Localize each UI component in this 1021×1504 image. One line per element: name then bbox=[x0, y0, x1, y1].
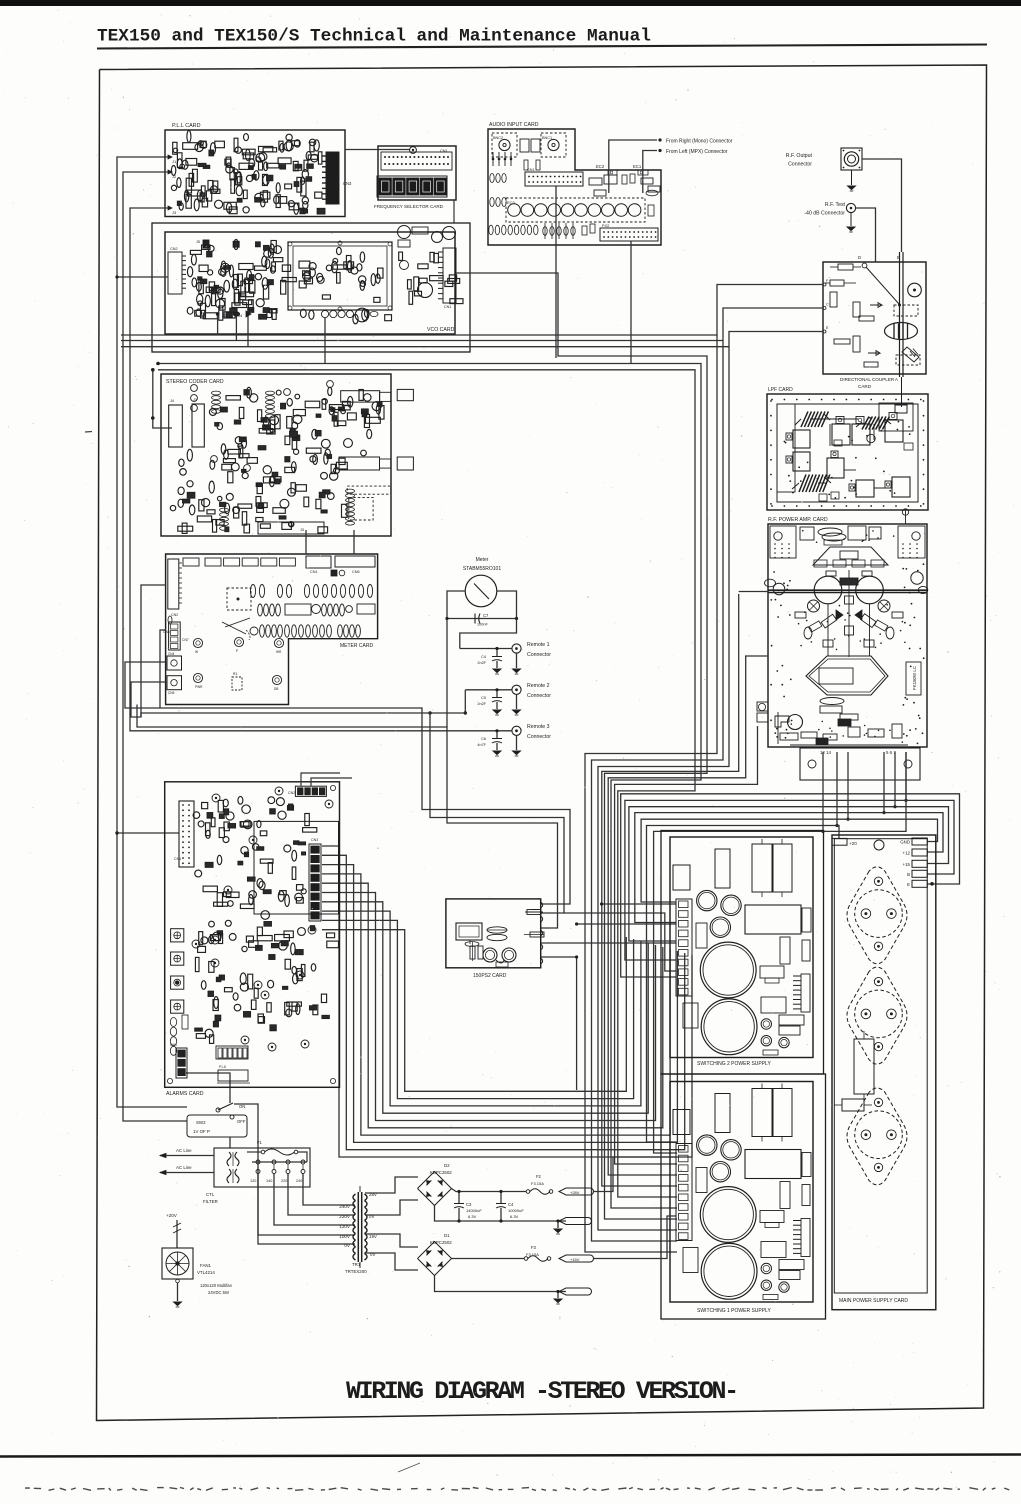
150PS2 regulator bbox=[456, 923, 482, 940]
svg-text:240: 240 bbox=[296, 1179, 302, 1183]
svg-text:Remote 3: Remote 3 bbox=[527, 724, 550, 730]
audio card left parts bbox=[492, 152, 494, 166]
wire to remote 1 bbox=[460, 648, 512, 650]
from-left connector callout bbox=[643, 151, 657, 194]
svg-text:120V: 120V bbox=[339, 1224, 351, 1229]
RF output ground stub bbox=[851, 170, 853, 185]
EC3 region with trimmer circles bbox=[506, 198, 645, 222]
svg-text:+20V: +20V bbox=[166, 1213, 178, 1218]
VCO connector CN2 bbox=[168, 252, 182, 294]
svg-text:CARD: CARD bbox=[858, 384, 872, 389]
wire 150PS2 pin5 down bbox=[541, 957, 577, 1090]
wire alarms CN3 pin 1 bbox=[322, 846, 692, 1157]
svg-text:B: B bbox=[907, 872, 910, 877]
wire terminal GND bbox=[641, 819, 937, 902]
coupler pin F bbox=[823, 283, 826, 286]
meter connector CN1 bbox=[306, 556, 331, 568]
alarms CN2 stub wires bbox=[301, 773, 340, 786]
secondary wires to D1 bbox=[365, 1234, 418, 1247]
audio card right components bbox=[589, 178, 602, 185]
coupler dashed pad 2 bbox=[896, 355, 920, 365]
wire meter CN5 to 150PS2 bbox=[131, 682, 564, 913]
wire alarms CN3 pin 9 bbox=[322, 920, 634, 1098]
wire PLL J1 to margin bbox=[117, 157, 179, 833]
panel meter symbol bbox=[465, 575, 497, 607]
meter connector CN3 CN7 bbox=[169, 622, 181, 650]
alarms corner holes bbox=[167, 1078, 172, 1083]
main PSU fuse block bbox=[842, 1099, 864, 1111]
LPF inner ground ring bbox=[777, 404, 918, 502]
meter screw terminals bbox=[193, 638, 202, 647]
staircase L6 from RF amp connector bbox=[615, 726, 758, 1164]
alarms connector CN3 bbox=[309, 844, 321, 921]
RF amp ground plane dots bbox=[783, 696, 785, 698]
svg-text:F2: F2 bbox=[536, 1174, 542, 1179]
switching 2 power supply board bbox=[670, 837, 813, 1058]
RF amp left flange bbox=[765, 579, 776, 587]
wire alarms CN3 pin 5 bbox=[322, 883, 663, 1128]
RF amp screw left bbox=[808, 600, 820, 612]
svg-text:SW2: SW2 bbox=[196, 1120, 206, 1125]
svg-text:+20: +20 bbox=[849, 841, 857, 846]
RF amp diamond combiner bbox=[806, 656, 888, 695]
svg-text:220: 220 bbox=[281, 1179, 287, 1183]
svg-text:CN1: CN1 bbox=[310, 570, 318, 574]
svg-text:24VDC 5W: 24VDC 5W bbox=[208, 1290, 229, 1295]
RF test connector symbol bbox=[846, 203, 855, 212]
svg-text:VTL4214: VTL4214 bbox=[197, 1270, 215, 1275]
svg-text:CN4: CN4 bbox=[168, 652, 175, 656]
bottom scan noise bbox=[25, 1487, 30, 1489]
spade 0V upper bbox=[559, 1218, 592, 1225]
long bus wire 2 drop bbox=[592, 341, 724, 1242]
LPF interior dots bbox=[851, 480, 853, 482]
RF amp left connector bbox=[757, 702, 768, 711]
audio card bottom row parts bbox=[489, 225, 493, 235]
svg-text:CN1: CN1 bbox=[440, 149, 448, 153]
meter connector CN5 bbox=[167, 676, 182, 690]
svg-text:Connector: Connector bbox=[527, 652, 551, 658]
svg-text:A: A bbox=[895, 377, 898, 382]
main PSU right terminals bbox=[912, 838, 927, 845]
svg-text:CN1: CN1 bbox=[444, 305, 451, 309]
switching 1 enclosure box bbox=[661, 1074, 826, 1319]
audio card coupling parts bbox=[520, 139, 529, 152]
remote 1 ground bbox=[516, 653, 518, 668]
VCO shield box bbox=[288, 242, 392, 310]
switching 2 enclosure box bbox=[661, 831, 824, 1075]
remote 2 ground bbox=[516, 694, 518, 709]
main PSU resistor block bbox=[854, 1039, 874, 1094]
svg-text:P1-8: P1-8 bbox=[219, 1065, 226, 1069]
svg-text:CN6: CN6 bbox=[352, 570, 360, 574]
main PSU +20 terminal bbox=[832, 838, 847, 845]
svg-text:D2: D2 bbox=[444, 1163, 450, 1168]
coder dashed pads bbox=[347, 486, 391, 494]
coder connector J1 bbox=[192, 404, 204, 447]
svg-text:R.F. Test: R.F. Test bbox=[825, 202, 846, 208]
alarms connector CN2 bbox=[295, 786, 326, 796]
spade +28V bbox=[559, 1188, 594, 1195]
svg-text:OFF: OFF bbox=[237, 1119, 246, 1124]
meter component row 3 bbox=[250, 627, 258, 635]
svg-text:BNC1: BNC1 bbox=[542, 136, 552, 140]
wire alarms CN3 pin 3 bbox=[322, 865, 677, 1143]
header rule bbox=[97, 45, 987, 49]
svg-text:DIRECTIONAL COUPLER: DIRECTIONAL COUPLER bbox=[840, 377, 895, 382]
LPF small pads bbox=[819, 494, 827, 501]
coupler hatched stub bbox=[902, 347, 919, 362]
svg-text:AC Line: AC Line bbox=[176, 1148, 192, 1153]
capacitor C6 bbox=[496, 731, 498, 738]
LPF inductor hatch 1 bbox=[801, 412, 808, 428]
meter potentiometer cross bbox=[225, 618, 250, 627]
coupler pin C bbox=[823, 307, 826, 310]
bridge D1 bottom wire bbox=[435, 1276, 567, 1292]
VCO outer routing box bbox=[152, 223, 470, 352]
svg-text:DB: DB bbox=[274, 687, 278, 691]
RF amp top components bbox=[800, 527, 814, 540]
svg-text:+15: +15 bbox=[903, 862, 911, 867]
svg-text:C4: C4 bbox=[508, 1202, 514, 1207]
meter connector CN6 bbox=[335, 556, 375, 567]
RF amp below-diamond parts bbox=[820, 698, 844, 705]
svg-text:0V: 0V bbox=[344, 1243, 351, 1248]
svg-text:150PS2 CARD: 150PS2 CARD bbox=[473, 973, 507, 979]
svg-text:SWITCHING 2 POWER SUPPLY: SWITCHING 2 POWER SUPPLY bbox=[697, 1061, 771, 1067]
svg-text:140: 140 bbox=[266, 1179, 272, 1183]
PLL card components bbox=[236, 172, 241, 183]
svg-text:CN1: CN1 bbox=[174, 857, 181, 861]
svg-text:PWR: PWR bbox=[195, 685, 203, 689]
svg-text:-40 dB Connector: -40 dB Connector bbox=[804, 211, 845, 217]
meter loop continuation bbox=[446, 619, 448, 728]
coupler pin E bbox=[823, 330, 826, 333]
meter component row 2 bbox=[258, 604, 263, 616]
alarms bottom IC bbox=[218, 1070, 248, 1081]
svg-text:R.F. POWER AMP. CARD: R.F. POWER AMP. CARD bbox=[768, 517, 828, 523]
svg-text:4n7F: 4n7F bbox=[477, 743, 486, 747]
svg-text:F3: F3 bbox=[531, 1245, 537, 1250]
svg-text:2n2F: 2n2F bbox=[477, 661, 486, 665]
RF power amp card outline bbox=[768, 524, 927, 747]
150PS2 right pins bbox=[541, 902, 543, 908]
RF amp left stub to bundle bbox=[739, 591, 768, 593]
RF amp right flange bbox=[911, 572, 923, 584]
capacitor C5 bbox=[496, 690, 498, 697]
svg-text:100V: 100V bbox=[339, 1234, 351, 1239]
svg-text:1V OF P: 1V OF P bbox=[193, 1129, 210, 1134]
coupler arrow part 1 bbox=[870, 303, 882, 308]
svg-text:Remote 1: Remote 1 bbox=[527, 642, 550, 648]
svg-text:FAN1: FAN1 bbox=[200, 1263, 212, 1268]
connector P02 audio bbox=[600, 228, 658, 241]
long bus wire 1 drop bbox=[585, 335, 717, 1252]
wire to remote 2 bbox=[465, 689, 512, 691]
alarms left screw blocks bbox=[171, 929, 184, 942]
svg-text:BNC2: BNC2 bbox=[493, 136, 503, 140]
frequency selector connector rows bbox=[381, 152, 452, 170]
coder trimmer circles bbox=[191, 385, 198, 392]
RF amp bottom section parts bbox=[788, 715, 803, 730]
meter card top row bbox=[183, 558, 199, 566]
RF amp mid extra parts bbox=[795, 612, 806, 618]
svg-text:CN5: CN5 bbox=[168, 691, 175, 695]
svg-text:100nF: 100nF bbox=[477, 623, 488, 627]
LPF center screw bbox=[867, 434, 875, 442]
svg-text:MAIN POWER SUPPLY CARD: MAIN POWER SUPPLY CARD bbox=[839, 1298, 908, 1304]
remote 1 connector bbox=[512, 644, 521, 653]
150PS2 big capacitors bbox=[483, 948, 497, 962]
meter small rect R1 bbox=[232, 677, 242, 690]
svg-text:10000uF: 10000uF bbox=[508, 1208, 524, 1213]
selector tap wires bbox=[303, 1174, 355, 1206]
svg-text:F3.15A: F3.15A bbox=[531, 1181, 544, 1186]
wire 150PS2 pin4 to switching2 bbox=[541, 942, 676, 944]
RF amp top trapezoid bbox=[813, 547, 888, 565]
coupler resistor 1 bbox=[838, 264, 853, 270]
capacitor C3 bbox=[458, 1192, 460, 1204]
svg-text:ALARMS CARD: ALARMS CARD bbox=[166, 1091, 204, 1097]
svg-text:STEREO CODER CARD: STEREO CODER CARD bbox=[166, 379, 224, 385]
wire margin to 150PS2 third bbox=[137, 705, 558, 929]
svg-text:Connector: Connector bbox=[788, 162, 812, 168]
150PS2 small capacitors bbox=[470, 946, 475, 959]
alarms CN4 to switch wire bbox=[186, 1073, 230, 1103]
svg-text:R.F. Output: R.F. Output bbox=[786, 153, 813, 159]
meter card outline bbox=[166, 554, 378, 705]
svg-text:VCO CARD: VCO CARD bbox=[427, 327, 455, 333]
AC line out 2 bbox=[160, 1172, 214, 1174]
svg-text:GND: GND bbox=[900, 840, 910, 845]
LPF capacitor block 2 bbox=[885, 420, 903, 442]
svg-text:J5: J5 bbox=[196, 240, 200, 244]
spade +15V bbox=[559, 1255, 594, 1262]
svg-text:C3: C3 bbox=[466, 1202, 472, 1207]
wire terminal +15 bbox=[629, 807, 949, 941]
switch feed wire bbox=[234, 1104, 355, 1244]
coupler arrow part 2 bbox=[868, 351, 880, 356]
wire RF test to coupler bbox=[856, 208, 876, 262]
fan ground bbox=[176, 1279, 180, 1283]
LPF card outline bbox=[767, 394, 928, 510]
svg-text:D1: D1 bbox=[444, 1233, 450, 1238]
svg-text:C5: C5 bbox=[481, 696, 486, 700]
wire alarms CN3 pin 4 bbox=[322, 874, 670, 1135]
RF amp screw right bbox=[878, 600, 890, 612]
svg-text:C7: C7 bbox=[483, 613, 489, 618]
wire +15V to switching1 bbox=[594, 1216, 677, 1259]
wire terminal B bbox=[625, 800, 954, 960]
coupler detector circle bbox=[908, 283, 922, 297]
left margin tick bbox=[85, 431, 92, 434]
long bus wire 3 bbox=[121, 332, 823, 347]
directional coupler card outline bbox=[823, 262, 926, 374]
transformer TR1 bbox=[357, 1192, 359, 1262]
RF amp matching parts bbox=[836, 610, 843, 620]
AC filter windings bbox=[227, 1152, 231, 1166]
remote 3 connector bbox=[512, 726, 521, 735]
wire terminal +12 bbox=[635, 813, 943, 923]
LPF capacitor block 1 bbox=[832, 424, 850, 445]
frequency selector card outline bbox=[378, 146, 456, 200]
wire terminal E bbox=[621, 794, 960, 977]
svg-text:METER CARD: METER CARD bbox=[340, 643, 373, 649]
spade 0V lower bbox=[559, 1288, 592, 1295]
svg-text:EC1: EC1 bbox=[633, 164, 642, 169]
RF amp transistor Q1 bbox=[814, 576, 842, 604]
coupler resistor 2 bbox=[830, 280, 844, 286]
svg-text:CN2: CN2 bbox=[170, 247, 178, 251]
svg-text:J4: J4 bbox=[170, 399, 174, 403]
VCO J2 drop wire bbox=[217, 316, 219, 335]
coupler coupled-line diagonal bbox=[862, 263, 867, 268]
VCO shield screws bbox=[288, 242, 292, 246]
svg-text:CN3: CN3 bbox=[311, 838, 318, 842]
svg-text:D: D bbox=[858, 255, 861, 260]
LPF inductor hatch 3 bbox=[799, 475, 806, 493]
PLL pins J1 J2 J3 bbox=[168, 155, 172, 159]
audio CN1 drop wire bbox=[555, 186, 557, 358]
ground on lower 0V line bbox=[557, 1292, 559, 1299]
BNC2 connector bbox=[492, 133, 517, 157]
LPF inner traces bbox=[810, 418, 858, 420]
alarms sub-board bbox=[254, 821, 339, 914]
VCO card outline bbox=[165, 232, 455, 334]
long bus wire 3 drop bbox=[598, 347, 729, 1230]
main PSU top hole bbox=[874, 840, 884, 850]
coder RF plug 2 bbox=[339, 457, 379, 470]
wire terminal +20 bbox=[647, 826, 840, 1143]
coder bottom connector J3 bbox=[258, 522, 324, 534]
svg-text:CN7: CN7 bbox=[182, 638, 189, 642]
svg-text:EC2: EC2 bbox=[596, 164, 605, 169]
RF amp bottom tab bbox=[800, 748, 920, 780]
RF test ground stub bbox=[850, 213, 852, 226]
150PS2 card outline bbox=[446, 899, 541, 968]
coupler resistor 7 bbox=[834, 339, 850, 344]
coupler transmission line bbox=[899, 252, 901, 377]
PLL card outline bbox=[165, 130, 345, 217]
svg-text:From Left (MPX) Connector: From Left (MPX) Connector bbox=[666, 149, 728, 155]
coupler resistor 4 bbox=[853, 302, 860, 317]
wire bundle to switching2 pin1 bbox=[602, 903, 676, 905]
svg-text:R1: R1 bbox=[233, 672, 237, 676]
svg-text:6.3V: 6.3V bbox=[468, 1214, 477, 1219]
power transistors TO-3 bbox=[847, 867, 907, 964]
LPF left capacitors bbox=[793, 430, 810, 448]
wire alarms CN3 pin 2 bbox=[322, 855, 685, 1149]
alarms card components bbox=[217, 893, 222, 907]
svg-text:WR: WR bbox=[276, 650, 282, 654]
svg-text:C: C bbox=[826, 303, 829, 307]
coder to meter CN6 wire bbox=[353, 530, 355, 554]
svg-text:WIRING DIAGRAM -STEREO VERSION: WIRING DIAGRAM -STEREO VERSION- bbox=[346, 1377, 737, 1406]
svg-text:FREQUENCY SELECTOR CARD: FREQUENCY SELECTOR CARD bbox=[374, 204, 444, 209]
svg-text:STABM55RO101: STABM55RO101 bbox=[463, 566, 501, 572]
stereo coder card outline bbox=[161, 374, 391, 536]
svg-text:+15V: +15V bbox=[570, 1257, 580, 1262]
svg-text:12 14: 12 14 bbox=[820, 750, 832, 755]
svg-text:F1: F1 bbox=[257, 1140, 263, 1145]
main power supply card outline bbox=[832, 835, 936, 1310]
connector CN1 audio bbox=[525, 172, 583, 186]
secondary wires to D2 bbox=[365, 1177, 418, 1193]
svg-text:+28V: +28V bbox=[570, 1190, 580, 1195]
svg-text:AC Line: AC Line bbox=[176, 1165, 192, 1170]
switching 1 power supply board bbox=[670, 1082, 813, 1303]
main PSU E wire dot bbox=[930, 882, 934, 886]
svg-text:W: W bbox=[195, 650, 198, 654]
wire alarms CN3 pin 8 bbox=[322, 911, 641, 1106]
svg-text:C4: C4 bbox=[481, 655, 486, 659]
coupler dashed pad 1 bbox=[894, 305, 918, 316]
svg-text:TEX150 and TEX150/S Technical: TEX150 and TEX150/S Technical and Mainte… bbox=[97, 27, 651, 47]
margin continuation to AC area bbox=[117, 833, 187, 1107]
BNC1 connector bbox=[541, 133, 566, 157]
VCO J4 drop wire bbox=[235, 316, 237, 341]
capacitor C7 bbox=[474, 614, 476, 624]
audio bus wire bbox=[158, 364, 701, 1209]
alarms connector CN4 bbox=[176, 1048, 187, 1078]
VCO bottom circle row bbox=[321, 310, 328, 317]
bottom rule bbox=[0, 1455, 1021, 1457]
wire margin to VCO CN2 bbox=[117, 276, 168, 278]
svg-text:P.L.L CARD: P.L.L CARD bbox=[172, 123, 201, 129]
capacitor C4 bbox=[500, 1192, 502, 1204]
svg-text:CN3: CN3 bbox=[343, 181, 352, 186]
audio bus wire 2 bbox=[158, 370, 695, 1197]
150PS2 diodes bbox=[487, 927, 507, 933]
LPF inductor hatch 2 bbox=[862, 417, 869, 430]
svg-text:LPF CARD: LPF CARD bbox=[768, 387, 793, 393]
wire +28V to switching1 bbox=[594, 1157, 678, 1192]
svg-text:19V: 19V bbox=[369, 1234, 377, 1239]
svg-text:120: 120 bbox=[250, 1179, 256, 1183]
VCO right area parts bbox=[398, 226, 411, 239]
meter connector CN4 bbox=[167, 656, 182, 670]
meter dashed pad bbox=[227, 588, 251, 610]
remote 3 ground bbox=[516, 735, 518, 750]
svg-text:TRTEX200: TRTEX200 bbox=[345, 1269, 367, 1274]
svg-text:120x120 Multifan: 120x120 Multifan bbox=[200, 1283, 233, 1288]
audio input card outline bbox=[488, 129, 661, 245]
from-right connector callout bbox=[609, 140, 657, 193]
RF output connector symbol bbox=[841, 148, 862, 170]
RF amp pin drop wires bbox=[822, 752, 824, 831]
svg-text:220V: 220V bbox=[339, 1214, 351, 1219]
coupler resistor 3 bbox=[830, 292, 837, 307]
freq selector to VCO wire bbox=[453, 200, 455, 223]
top scan edge bar bbox=[0, 0, 1021, 6]
VCO J5 drop wire bbox=[324, 318, 326, 364]
wire alarms CN3 pin 7 bbox=[322, 902, 648, 1113]
alarms card outline bbox=[165, 782, 340, 1088]
LPF perimeter dots bbox=[771, 399, 773, 401]
capacitor C4 bbox=[496, 649, 498, 657]
fan feed wire bbox=[176, 1220, 178, 1248]
svg-text:Remote 2: Remote 2 bbox=[527, 683, 550, 689]
coder coil combs bbox=[212, 391, 221, 395]
wire 150PS2 pin2 cross bbox=[564, 913, 676, 971]
RF amp center line parts bbox=[848, 570, 850, 657]
LPF lower capacitors bbox=[827, 458, 844, 478]
ground on 0V line bbox=[557, 1221, 559, 1228]
svg-text:E: E bbox=[907, 882, 910, 887]
wire margin to coder bbox=[123, 369, 158, 371]
RF amp corner pads bbox=[770, 526, 796, 558]
AC line out 1 bbox=[160, 1155, 214, 1157]
